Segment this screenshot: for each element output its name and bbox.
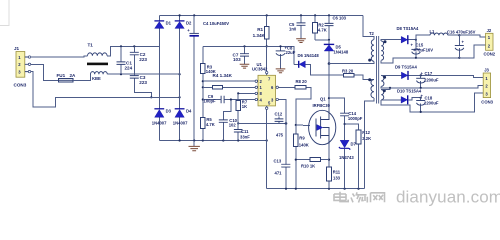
- svg-text:KBE: KBE: [92, 76, 101, 81]
- svg-text:1.34K: 1.34K: [253, 33, 266, 38]
- svg-text:223: 223: [139, 80, 147, 85]
- svg-text:D7: D7: [351, 142, 357, 147]
- svg-text:103: 103: [233, 57, 241, 62]
- resistor R11 133: [327, 167, 341, 189]
- svg-text:C17: C17: [425, 71, 433, 76]
- wire AC1 line: [107, 46, 159, 56]
- diode D5 1N4148: [324, 40, 349, 64]
- node rail-C10: [222, 139, 224, 141]
- svg-text:D6 1N4148: D6 1N4148: [298, 53, 320, 58]
- capacitor C14 1000pF: [340, 111, 363, 140]
- wire aux bottom return: [365, 98, 375, 189]
- svg-text:1n0: 1n0: [289, 27, 297, 32]
- node pin8-R7: [237, 92, 239, 94]
- capacitor C6 103: [325, 15, 347, 39]
- node pin4-C10: [230, 98, 232, 100]
- wire VCC line: [203, 46, 294, 64]
- wire snubber branch: [329, 98, 345, 113]
- svg-text:470uF16V: 470uF16V: [414, 47, 434, 52]
- wire J1 pin2 to fuse: [31, 64, 59, 80]
- node out1-C16: [458, 34, 460, 36]
- capacitor C12 475: [275, 112, 284, 138]
- capacitor C18 2200uF: [416, 93, 439, 112]
- ground primary: [189, 141, 200, 151]
- node CS line: [285, 122, 288, 125]
- node D8-C15: [415, 39, 417, 41]
- resistor R4 1.34K: [203, 73, 255, 89]
- wire AC2 line: [107, 73, 179, 75]
- node rail-R5: [202, 139, 204, 141]
- core: [377, 36, 379, 104]
- svg-text:D1: D1: [166, 21, 172, 26]
- inductor L1: [430, 29, 448, 35]
- node pin4 line: [202, 98, 204, 100]
- svg-text:1N4743: 1N4743: [339, 155, 354, 160]
- node AC2-D2col: [179, 73, 181, 75]
- svg-text:Q1: Q1: [320, 97, 326, 102]
- wire DC+ top rail: [159, 14, 363, 16]
- svg-text:R8 20: R8 20: [296, 79, 308, 84]
- connector J1: [14, 46, 31, 88]
- svg-text:1000pF: 1000pF: [348, 116, 363, 121]
- connector J3: [481, 68, 493, 105]
- svg-text:4.7K: 4.7K: [318, 28, 327, 33]
- wire ramp line: [238, 122, 286, 124]
- ground C5: [296, 39, 306, 43]
- svg-text:FU1: FU1: [57, 73, 66, 78]
- node w3-common: [389, 87, 391, 89]
- svg-text:33nF: 33nF: [240, 135, 250, 140]
- capacitor C3 223: [130, 75, 152, 97]
- svg-text:2A: 2A: [70, 73, 77, 78]
- svg-text:102: 102: [229, 122, 237, 127]
- node rail-D4: [179, 139, 181, 141]
- wire gate into Q1: [296, 124, 310, 127]
- capacitor C1 224: [117, 46, 133, 74]
- frame corner mark top-left: [0, 0, 10, 26]
- secondary winding w1: [381, 41, 383, 60]
- capacitor C9 100pF: [203, 94, 255, 103]
- node rail2-C17: [420, 87, 422, 89]
- wire pin8 line: [238, 92, 255, 94]
- fuse FU1 2A: [57, 73, 77, 82]
- node rail-D7: [344, 188, 346, 190]
- wire w3 top to common: [381, 88, 390, 90]
- node rail-R9: [295, 188, 297, 190]
- svg-text:D8 TS15A4: D8 TS15A4: [397, 26, 420, 31]
- node earth-D2col: [179, 96, 181, 98]
- svg-text:1N4007: 1N4007: [152, 120, 167, 125]
- resistor R3 140K: [200, 46, 215, 140]
- svg-text:223: 223: [139, 57, 147, 62]
- transformer T2: [363, 15, 387, 188]
- svg-text:D9 TS15A4: D9 TS15A4: [395, 64, 418, 69]
- wire bottom rail: [267, 188, 365, 190]
- resistor R5 4.7K: [200, 117, 214, 128]
- node drain-primary junction: [328, 62, 331, 65]
- svg-text:CON3: CON3: [481, 100, 493, 105]
- node rail3-C18: [420, 111, 422, 113]
- capacitor C8 22uF: [276, 46, 296, 69]
- node VCC-C7: [243, 45, 245, 47]
- diode D8 TS15A4: [381, 26, 419, 44]
- wire pin3 CS column: [278, 100, 286, 189]
- resistor R8 20 gate: [278, 79, 310, 125]
- svg-text:J1: J1: [14, 46, 20, 51]
- svg-text:D4: D4: [186, 109, 192, 114]
- svg-text:R10 1K: R10 1K: [301, 163, 315, 168]
- node ramp-R7: [237, 122, 239, 124]
- svg-text:C4 10uF450V: C4 10uF450V: [203, 21, 229, 26]
- svg-text:T2: T2: [369, 31, 375, 36]
- svg-text:1N4148: 1N4148: [334, 50, 349, 55]
- node w3 dot: [383, 89, 386, 92]
- svg-text:D2: D2: [186, 21, 192, 26]
- ground C7: [240, 64, 250, 68]
- node VCC-R1: [266, 45, 268, 47]
- node R10-R9: [295, 159, 297, 161]
- resistor R7 1K: [236, 93, 248, 123]
- node aux dot: [368, 78, 371, 81]
- node rail-C11: [237, 139, 239, 141]
- wire pin4 to C10: [223, 100, 231, 120]
- svg-text:R3 20: R3 20: [342, 68, 354, 73]
- wire output1 top line: [416, 35, 486, 40]
- ground C8: [276, 69, 286, 73]
- secondary winding w3: [381, 90, 384, 100]
- node primary dot: [368, 59, 371, 62]
- wire drain column: [328, 64, 330, 111]
- wire output1 return rail: [381, 45, 485, 63]
- svg-text:CON3: CON3: [14, 83, 27, 88]
- IC U1 UC3842 PWM controller: [252, 62, 278, 109]
- svg-text:CON2: CON2: [484, 52, 496, 57]
- node rail-D2: [179, 14, 181, 16]
- resistor R10 1K: [296, 158, 329, 169]
- capacitor C16 470uF16V: [447, 29, 476, 57]
- node rail-C13: [285, 188, 287, 190]
- node w2 dot: [383, 76, 386, 79]
- diode D3 1N4007: [152, 46, 172, 140]
- node rail-C6: [328, 14, 330, 16]
- capacitor C13 471: [274, 159, 291, 176]
- capacitor C15 470uF16V: [411, 40, 434, 58]
- node rail-R12: [357, 188, 359, 190]
- svg-text:2200uF: 2200uF: [424, 77, 439, 82]
- node AC1-C2: [133, 45, 135, 47]
- node D9-C17: [420, 74, 422, 76]
- zener D7 1N4743: [339, 140, 357, 188]
- wire fuse to T1 bottom: [73, 74, 90, 80]
- capacitor C2 223: [130, 46, 148, 75]
- capacitor C4 10uF450V: [187, 15, 229, 140]
- diode D2: [175, 15, 192, 74]
- node gate: [295, 124, 297, 126]
- capacitor C10 102: [219, 118, 238, 140]
- svg-text:C13: C13: [274, 159, 282, 164]
- node pin1 line: [202, 86, 204, 88]
- svg-text:IRFBC30: IRFBC30: [313, 103, 331, 108]
- resistor R1 134K startup: [253, 15, 269, 71]
- wire J1 pin3 earth run: [31, 72, 180, 107]
- svg-text:T1: T1: [88, 43, 94, 48]
- resistor R2 4.7K: [313, 15, 327, 39]
- svg-text:R11: R11: [333, 169, 341, 174]
- capacitor C11 33nF: [234, 123, 250, 140]
- svg-text:J2: J2: [487, 28, 492, 33]
- svg-text:4.7K: 4.7K: [206, 122, 215, 127]
- node D10-C18: [420, 97, 422, 99]
- svg-text:475: 475: [276, 133, 284, 138]
- node rail-R11: [328, 188, 330, 190]
- node rail-R1: [266, 14, 268, 16]
- node C14-R12: [344, 123, 346, 125]
- node rail-C4gnd: [193, 139, 195, 141]
- transistor Q1 IRFBC30: [309, 97, 336, 145]
- svg-text:2200uF: 2200uF: [424, 100, 439, 105]
- wire pin5 ground column: [266, 109, 268, 188]
- node w1 dot: [384, 40, 387, 43]
- wire drain node to T2 primary bottom: [329, 61, 374, 63]
- node AC1-C1: [120, 45, 122, 47]
- wire rail to primary top: [363, 15, 374, 39]
- diode D10 TS15A4: [381, 88, 422, 104]
- svg-text:C16 470uF16V: C16 470uF16V: [447, 29, 476, 34]
- primary winding: [371, 40, 374, 62]
- node C3 to neutral line: [150, 96, 152, 98]
- node clamp-D5: [328, 39, 330, 41]
- node rail-R2: [314, 14, 316, 16]
- svg-text:dianyuan.com: dianyuan.com: [396, 188, 500, 207]
- wire DC- mid rail: [159, 140, 266, 142]
- node source-R10: [328, 159, 330, 161]
- svg-text:L1: L1: [430, 29, 436, 34]
- node drain-snubber: [328, 97, 330, 99]
- svg-text:100pF: 100pF: [204, 98, 217, 103]
- wire output3 rail: [381, 93, 483, 112]
- diode D9 TS15A4: [381, 64, 483, 80]
- capacitor C7 103: [233, 46, 250, 64]
- resistor R12 2.2K: [345, 124, 372, 189]
- svg-text:140K: 140K: [299, 142, 309, 147]
- node VCC-C8: [279, 45, 281, 47]
- wire Q1 source column: [328, 144, 330, 167]
- svg-text:D10 TS15A4: D10 TS15A4: [397, 88, 422, 93]
- svg-text:R12: R12: [362, 130, 370, 135]
- node rail-C4: [193, 14, 195, 16]
- capacitor C17 2200uF: [416, 71, 439, 88]
- svg-text:R4 1.34K: R4 1.34K: [213, 73, 233, 78]
- node AC2-C1: [120, 73, 122, 75]
- wire pin2 line: [203, 80, 255, 82]
- svg-text:R9: R9: [299, 135, 305, 140]
- svg-text:UC3842: UC3842: [252, 67, 268, 72]
- svg-text:133: 133: [333, 176, 341, 181]
- svg-text:C12: C12: [275, 112, 283, 117]
- svg-text:D3: D3: [166, 109, 172, 114]
- wire output2 common rail: [381, 85, 483, 88]
- diode D1: [154, 15, 171, 46]
- svg-text:1N4007: 1N4007: [173, 120, 188, 125]
- wire J1 pin1 to T1: [31, 56, 88, 57]
- node rail1-C15: [415, 57, 417, 59]
- svg-text:C11: C11: [241, 129, 249, 134]
- connector J2: [484, 28, 496, 57]
- svg-text:22uF: 22uF: [286, 50, 296, 55]
- watermark dianyuan.com: [334, 192, 385, 203]
- diode D6 1N4148: [294, 53, 374, 79]
- node rail-gnd: [266, 139, 268, 141]
- svg-text:J3: J3: [484, 68, 489, 73]
- resistor R9 140K: [293, 125, 308, 189]
- diode D4 1N4007: [173, 74, 192, 140]
- svg-text:471: 471: [275, 170, 283, 175]
- capacitor C5 1n0: [289, 15, 306, 38]
- svg-text:224: 224: [125, 66, 133, 71]
- svg-text:C6 103: C6 103: [333, 15, 347, 20]
- svg-text:1K: 1K: [242, 104, 247, 109]
- node rail-C5: [300, 14, 302, 16]
- transformer T1 common-mode choke: [87, 43, 108, 82]
- aux winding: [371, 80, 374, 98]
- svg-text:2.2K: 2.2K: [362, 136, 371, 141]
- resistor R3b 20: [342, 68, 354, 77]
- node rail1-C16: [458, 57, 460, 59]
- node pin2 line: [202, 80, 204, 82]
- wire R2-C6 clamp bottom: [315, 39, 329, 41]
- secondary winding w2: [381, 75, 384, 86]
- svg-text:R1: R1: [257, 27, 263, 32]
